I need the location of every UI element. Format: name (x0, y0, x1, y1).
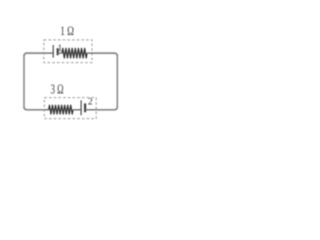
svg-text:3 Ω: 3 Ω (51, 81, 64, 96)
battery box (dashed) top branch (44, 40, 92, 63)
svg-text:2: 2 (88, 98, 93, 108)
wire into battery B1 (44, 52, 53, 54)
svg-text:1 Ω: 1 Ω (60, 24, 74, 38)
battery B1 short plate (57, 48, 59, 55)
battery B2 short plate (84, 103, 86, 112)
wire bottom-left segment (24, 107, 44, 110)
wire left vertical (23, 55, 25, 108)
wire bottom-right segment (96, 107, 117, 110)
wire battery B2 to box edge (85, 109, 96, 111)
wire resistor R1 to box edge (87, 52, 93, 54)
battery B1 long plate (52, 45, 54, 58)
wire resistor R2 to battery B2 (73, 109, 81, 111)
wire top-right segment (92, 53, 117, 56)
wire top-left segment (24, 53, 44, 56)
battery box (dashed) bottom branch (44, 98, 96, 119)
wire battery to resistor R1 (58, 52, 62, 54)
wire right vertical (116, 55, 118, 108)
wire into resistor R2 (44, 109, 48, 111)
resistor R1 zigzag (62, 48, 87, 58)
resistor R2 zigzag (49, 105, 73, 114)
battery B2 long plate (80, 100, 82, 115)
